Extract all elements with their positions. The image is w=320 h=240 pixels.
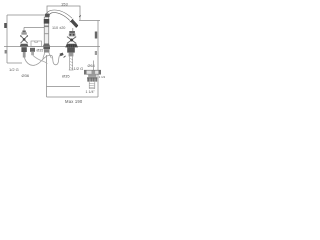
- drain flange: [84, 70, 100, 74]
- right handle cross: [67, 37, 76, 44]
- left handle cross: [20, 35, 28, 43]
- hose diverge left: [43, 53, 45, 59]
- wire left height dimension: [6, 15, 8, 63]
- node left dim text lower: [5, 50, 7, 54]
- right escutcheon: [65, 44, 78, 48]
- svg-text:1 1/2: 1 1/2: [99, 75, 105, 79]
- right shank nut: [67, 47, 75, 52]
- wire tail foot: [69, 69, 74, 71]
- drain flange center: [92, 71, 96, 74]
- hose diverge right: [49, 53, 52, 59]
- svg-text:1/2 G: 1/2 G: [9, 67, 19, 72]
- node right dim text lower: [95, 51, 97, 55]
- wire bottom-left extension: [7, 62, 22, 64]
- spout under-deck nut: [44, 49, 49, 52]
- spout outlet nozzle: [70, 19, 77, 27]
- spout arc: [46, 10, 72, 21]
- svg-text:1/2 G: 1/2 G: [74, 66, 84, 71]
- drain nut top band: [87, 77, 97, 78]
- right handle knob: [69, 31, 76, 36]
- wire outlet drop: [72, 28, 74, 31]
- spout under-deck band: [43, 47, 50, 49]
- wire right outlet extension: [79, 20, 100, 22]
- right shank tube: [69, 53, 74, 57]
- drain flange rims: [84, 70, 100, 74]
- node right dim text upper: [95, 32, 97, 39]
- middle shank tube: [31, 52, 34, 55]
- spout finial cap: [45, 14, 50, 18]
- hose U loop: [52, 55, 61, 65]
- wire top-left extension: [7, 14, 46, 16]
- drain tail: [89, 82, 95, 89]
- drain tail foot: [89, 88, 95, 90]
- wire linkage horizontal: [47, 86, 81, 88]
- left handle knob: [21, 31, 26, 35]
- middle block notch: [35, 41, 38, 43]
- node leader tick left of tail: [64, 56, 66, 58]
- middle block: [31, 41, 42, 47]
- svg-text:Ø35: Ø35: [37, 49, 44, 53]
- middle shank nut: [30, 48, 35, 52]
- wire Max190 dimension: [47, 96, 99, 98]
- svg-text:Max 190: Max 190: [65, 99, 83, 104]
- svg-text:Ø35: Ø35: [62, 74, 70, 79]
- nozzle aerator tip: [75, 25, 78, 28]
- left shank tube: [23, 52, 26, 58]
- hose end nut: [60, 53, 64, 57]
- drain neck band: [88, 75, 96, 76]
- right escutcheon flutes: [67, 45, 76, 48]
- wire handle-top extension: [24, 28, 44, 31]
- nozzle ring: [70, 19, 73, 22]
- left escutcheon: [20, 44, 29, 47]
- wire pop-up rod vertical: [46, 55, 48, 97]
- drain neck: [88, 74, 96, 77]
- wire deck line: [4, 46, 100, 48]
- svg-text:Ø36: Ø36: [22, 73, 30, 78]
- wire 153 dimension bracket: [47, 6, 80, 20]
- node left dim text upper: [4, 23, 7, 28]
- hose 1: [24, 55, 51, 65]
- svg-text:1 1/4": 1 1/4": [86, 90, 96, 94]
- drain nut facets: [89, 77, 97, 81]
- riser column: [43, 17, 50, 47]
- hose 2: [33, 55, 48, 64]
- node arrow on 153 extension: [79, 15, 81, 17]
- svg-text:110 ±20: 110 ±20: [52, 26, 65, 30]
- right threaded tail: [70, 56, 73, 70]
- wire right height dimension: [97, 21, 99, 98]
- svg-text:153: 153: [61, 1, 68, 6]
- drain pop-up rod: [93, 61, 95, 71]
- left shank nut: [21, 47, 26, 52]
- drain nut: [87, 77, 97, 81]
